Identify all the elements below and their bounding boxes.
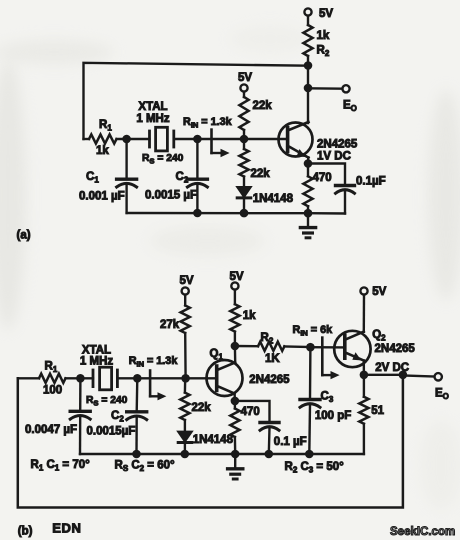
svg-text:1k: 1k	[243, 310, 256, 322]
wire 22k to diode (b)	[184, 420, 186, 432]
wire Q1 emitter down (b)	[233, 394, 236, 402]
5V supply terminal Q2 (b)	[360, 286, 386, 298]
node rail C2 (a)	[193, 209, 202, 218]
capacitor 0.0047uF (b)	[25, 378, 90, 454]
resistor 51 (b)	[359, 375, 384, 454]
svg-text:(a): (a)	[17, 230, 31, 242]
ground symbol (b)	[228, 454, 243, 479]
wire to output EO (a)	[308, 87, 342, 90]
svg-text:1N4148: 1N4148	[253, 193, 294, 205]
wire emitter node to 0.1uF (b)	[235, 401, 270, 423]
resistor R1 1k (a)	[89, 119, 117, 157]
wire R1 to crystal (b)	[66, 377, 94, 379]
5V supply terminal (a) top	[304, 8, 333, 20]
svg-text:2N4265: 2N4265	[249, 374, 290, 386]
svg-text:C2: C2	[111, 410, 124, 424]
crystal XTAL 1MHz (b)	[80, 345, 128, 408]
wire 5V to 27k	[184, 295, 186, 306]
wire 22k upper to base node (a)	[243, 130, 245, 139]
resistor R1 100 (b)	[39, 361, 66, 397]
svg-text:R1: R1	[99, 119, 112, 133]
svg-text:5V: 5V	[319, 8, 333, 20]
capacitor 0.1uF (b)	[260, 423, 307, 455]
svg-text:22k: 22k	[251, 168, 271, 180]
svg-text:RIN = 1.3k: RIN = 1.3k	[129, 355, 179, 369]
svg-text:RS C2 = 60°: RS C2 = 60°	[115, 459, 176, 473]
wire Q2 emitter to node (b)	[363, 360, 366, 375]
transistor Q2 2N4265 (b)	[334, 329, 415, 374]
diode 1N4148 (b)	[178, 431, 234, 446]
node rail 0.1uF (b)	[265, 450, 274, 459]
svg-text:R2 C3 = 50°: R2 C3 = 50°	[285, 461, 345, 475]
node Q2 emitter junction (b)	[360, 371, 369, 380]
svg-text:R2: R2	[261, 332, 274, 346]
label EDN	[52, 521, 81, 536]
label RIN = 1.3k (a)	[183, 116, 233, 130]
svg-text:0.0047 µF: 0.0047 µF	[25, 424, 77, 436]
svg-text:0.0015µF: 0.0015µF	[87, 426, 136, 438]
svg-text:EO: EO	[343, 100, 357, 114]
svg-text:1k: 1k	[96, 145, 109, 157]
resistor 470 (b)	[230, 401, 259, 454]
node 27k junction (b)	[181, 374, 190, 383]
wire diode to ground rail (a)	[243, 198, 245, 213]
svg-text:R1: R1	[45, 361, 58, 375]
svg-text:22k: 22k	[192, 402, 212, 414]
svg-text:0.001 µF: 0.001 µF	[79, 191, 125, 203]
RIN tick and arrow at Q2 (b)	[322, 338, 339, 380]
wire R2 to collector node	[307, 56, 309, 123]
resistor 470 (a)	[303, 164, 331, 214]
svg-text:EDN: EDN	[52, 521, 81, 536]
node emitter junction (a)	[304, 159, 313, 168]
wire 22k to diode (a)	[243, 177, 245, 188]
node Q1 collector junction (b)	[231, 342, 240, 351]
label RIN = 1.3k (b)	[129, 355, 179, 369]
svg-text:RIN = 1.3k: RIN = 1.3k	[183, 116, 233, 130]
wire 5V to 1k (b)	[234, 290, 236, 305]
wire feedback loop border (b)	[18, 375, 403, 508]
resistor 22k upper (a)	[239, 97, 272, 130]
svg-text:470: 470	[313, 172, 332, 184]
node C2 junction (b)	[133, 374, 142, 383]
node EO junction (b)	[399, 371, 408, 380]
RIN tick and arrow (b)	[150, 371, 166, 401]
svg-text:5V: 5V	[180, 275, 194, 287]
capacitor 0.1uF (a)	[336, 176, 386, 214]
capacitor C2 0.0015uF (a)	[145, 139, 207, 213]
node RIN junction (a)	[193, 135, 202, 144]
label phase R1C1=70 (b)	[31, 459, 91, 473]
svg-text:27k: 27k	[160, 319, 180, 331]
5V supply terminal 1k (b)	[230, 271, 244, 290]
label phase R2C3=50 (b)	[285, 461, 345, 475]
wire diode to rail (b)	[184, 443, 186, 454]
ground rail (a)	[127, 212, 345, 215]
label RIN = 6k (b)	[293, 324, 334, 338]
node output junction (a)	[304, 84, 313, 93]
node rail C2 (b)	[132, 450, 141, 459]
label phase RSC2=60 (b)	[115, 459, 176, 473]
crystal XTAL 1MHz (a)	[136, 101, 183, 166]
svg-text:(b): (b)	[18, 526, 33, 538]
svg-text:RS = 240: RS = 240	[86, 395, 128, 408]
svg-text:RS = 240: RS = 240	[142, 153, 184, 166]
output terminal EO (a)	[342, 85, 357, 113]
svg-text:22k: 22k	[253, 100, 273, 112]
svg-text:Q1: Q1	[210, 348, 224, 362]
wire emitter node to 0.1uF (a)	[308, 164, 345, 186]
resistor 1k (b)	[230, 304, 256, 331]
capacitor C3 100pF (b)	[300, 347, 351, 454]
svg-text:1V DC: 1V DC	[317, 151, 351, 163]
resistor 22k (b)	[180, 393, 211, 420]
transistor 2N4265 (a)	[279, 122, 358, 163]
svg-text:0.1 µF: 0.1 µF	[274, 436, 307, 448]
svg-text:100: 100	[43, 385, 62, 397]
wire 5V to 22k upper (a)	[243, 92, 245, 97]
svg-text:51: 51	[371, 405, 384, 417]
wire junction to 22k (b)	[184, 378, 187, 392]
svg-text:SeekIC.com: SeekIC.com	[390, 526, 455, 538]
wire left to R1 (b)	[18, 377, 39, 379]
svg-text:1 MHz: 1 MHz	[136, 113, 169, 125]
5V supply terminal 27k (b)	[180, 275, 194, 295]
ground symbol (a)	[300, 213, 315, 238]
resistor R2 1k (a)	[303, 25, 329, 58]
svg-text:C2: C2	[176, 171, 189, 185]
diode 1N4148 (a)	[237, 187, 294, 205]
wire R2 to Q2 base node (b)	[284, 345, 310, 348]
node rail ground (b)	[231, 450, 240, 459]
svg-text:5V: 5V	[238, 72, 252, 84]
node rail C3 (b)	[305, 450, 314, 459]
RIN measurement tick and arrow (a)	[212, 130, 230, 158]
wire R1 to crystal	[117, 138, 150, 140]
resistor 27k (b)	[160, 306, 190, 334]
svg-text:1K: 1K	[265, 353, 280, 365]
label (a)	[17, 230, 31, 242]
node rail ground (a)	[304, 209, 313, 218]
wire base node to Q2 (b)	[310, 346, 344, 349]
svg-text:1N4148: 1N4148	[193, 434, 234, 446]
svg-text:XTAL: XTAL	[138, 101, 167, 113]
label SeekIC.com watermark	[390, 526, 455, 538]
svg-text:R2: R2	[317, 45, 330, 59]
node rail diode (b)	[181, 450, 190, 459]
svg-text:0.0015 µF: 0.0015 µF	[145, 190, 197, 202]
svg-text:C3: C3	[321, 391, 334, 405]
svg-text:EO: EO	[435, 388, 449, 402]
node Q1 emitter junction (b)	[231, 397, 240, 406]
svg-text:1 MHz: 1 MHz	[80, 356, 113, 368]
node feedback junction (a)	[304, 61, 313, 70]
wire Q2 collector to 5V (b)	[363, 295, 366, 332]
svg-text:2N4265: 2N4265	[317, 139, 358, 151]
svg-text:0.1µF: 0.1µF	[356, 176, 386, 188]
svg-text:470: 470	[241, 406, 260, 418]
wire 1k to collector node (b)	[234, 332, 236, 346]
wire 5V to R2	[307, 16, 309, 25]
node Q2 base junction (b)	[306, 343, 315, 352]
resistor 22k lower (a)	[239, 149, 270, 180]
wire base node to 22k lower (a)	[243, 139, 245, 149]
capacitor C1 0.001uF (a)	[79, 139, 137, 213]
node rail diode (a)	[240, 209, 249, 218]
transistor Q1 2N4265 (b)	[207, 348, 291, 396]
wire emitter node to EO (b)	[364, 374, 403, 376]
label (b)	[18, 526, 33, 538]
svg-text:100 pF: 100 pF	[315, 410, 351, 422]
resistor R2 1K (b)	[258, 332, 284, 365]
wire Q1 collector up (b)	[234, 346, 237, 362]
svg-text:5V: 5V	[230, 271, 244, 283]
wire node to R2 (b)	[235, 345, 258, 348]
wire 27k to junction (b)	[184, 333, 187, 378]
node 22k junction (a)	[240, 135, 249, 144]
wire base to transistor (a)	[244, 138, 288, 140]
node 0.0047 junction (b)	[76, 374, 85, 383]
wire feedback loop (a)	[84, 63, 309, 139]
wire crystal to RIN node	[174, 138, 244, 140]
node C1 junction (a)	[122, 135, 131, 144]
svg-text:2N4265: 2N4265	[375, 343, 416, 355]
wire emitter to node (a)	[307, 157, 310, 164]
svg-text:1k: 1k	[317, 30, 330, 42]
wire main base line (a)	[84, 138, 90, 140]
svg-text:Q2: Q2	[372, 329, 386, 343]
ground rail (b)	[80, 453, 364, 455]
svg-text:5V: 5V	[372, 286, 386, 298]
5V supply terminal (a) middle	[238, 72, 252, 92]
wire to EO terminal (b)	[403, 376, 435, 377]
output terminal EO (b)	[435, 373, 449, 401]
capacitor C2 0.0015uF (b)	[87, 378, 147, 454]
svg-text:R1 C1 = 70°: R1 C1 = 70°	[31, 459, 91, 473]
svg-text:RIN = 6k: RIN = 6k	[293, 324, 334, 338]
wire crystal to 27k node (b)	[117, 377, 216, 379]
svg-text:C1: C1	[86, 171, 99, 185]
